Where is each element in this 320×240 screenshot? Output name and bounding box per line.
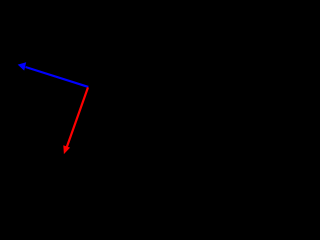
red vector arrowhead xyxy=(63,145,70,154)
blue vector arrowhead xyxy=(18,62,27,70)
red vector arrow (shaft) xyxy=(67,87,88,146)
blue vector arrow (shaft) xyxy=(26,67,89,87)
